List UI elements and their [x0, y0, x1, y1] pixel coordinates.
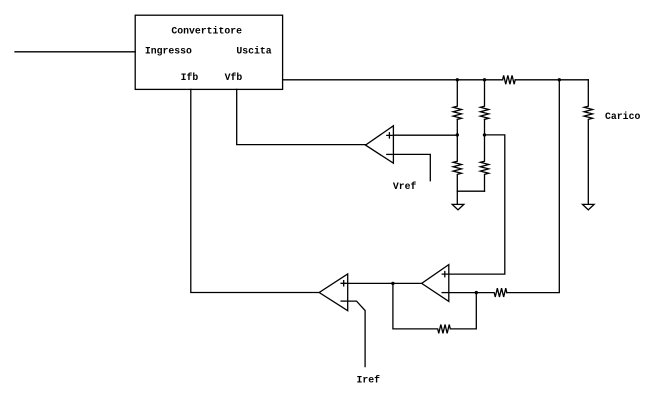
wire: Vfb pin down and right to op-amp U2 output — [237, 89, 366, 144]
svg-text:Ingresso: Ingresso — [145, 45, 192, 56]
svg-text:Vref: Vref — [393, 181, 417, 192]
node: feedback tap on U3 + line — [391, 282, 394, 285]
node: divider B tap — [483, 133, 486, 136]
wire: sense rail down to current-sense resistor line — [507, 80, 560, 293]
svg-text:Convertitore: Convertitore — [171, 26, 242, 37]
wire: Uscita output bus (top rail) — [283, 79, 503, 81]
resistor R8 (feedback) path: junction down, left, up to + line — [393, 283, 476, 333]
resistor R2 (divider A upper) — [453, 80, 461, 120]
converter block U1 (Convertitore) — [135, 15, 282, 89]
wire: Ifb pin down and right to op-amp U3 output — [191, 89, 319, 292]
node: sense rail junction — [558, 78, 561, 81]
resistor R4 (divider B upper) — [480, 80, 488, 120]
svg-text:Iref: Iref — [357, 374, 381, 385]
resistor R7 (current sense series) — [449, 288, 507, 297]
ground (load) — [583, 204, 595, 209]
wire: U2 - input to Vref stub — [393, 154, 430, 180]
wire: U4 output to U3 + input — [348, 282, 422, 284]
svg-text:Vfb: Vfb — [225, 72, 243, 83]
resistor R6 (Carico load) — [584, 80, 592, 204]
wire: input to Ingresso — [15, 51, 135, 53]
wire: U3 - input to Iref stub — [348, 301, 365, 367]
wire: divider A tap to op-amp U2 + input — [393, 134, 457, 136]
node: U4 - input junction — [475, 291, 478, 294]
wire: divider bottoms joined — [457, 190, 484, 192]
resistor R5 (divider B lower) — [480, 119, 488, 191]
node: divider A tap — [456, 133, 459, 136]
node: divider B top junction — [483, 78, 486, 81]
wire: top rail to load — [515, 79, 588, 81]
op-amp U2 (voltage error amp) — [366, 126, 394, 163]
node: divider A top junction — [456, 78, 459, 81]
svg-text:Uscita: Uscita — [236, 45, 271, 56]
svg-text:Ifb: Ifb — [181, 72, 199, 83]
svg-text:Carico: Carico — [605, 111, 640, 122]
ground (divider A) — [452, 204, 464, 209]
op-amp U3 (output amp) — [319, 274, 348, 311]
wire: divider B tap to op-amp U4 + input — [449, 135, 505, 274]
resistor R3 (divider A lower) — [453, 119, 461, 204]
op-amp U4 (current amp) — [422, 265, 449, 302]
resistor R1 (series, top rail) — [503, 75, 516, 84]
